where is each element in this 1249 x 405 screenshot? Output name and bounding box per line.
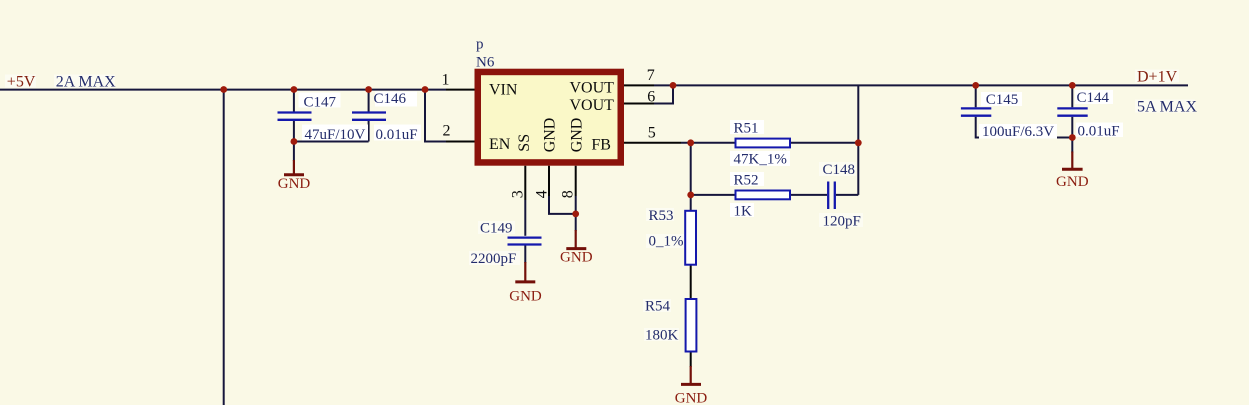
svg-text:5: 5 <box>648 124 656 141</box>
svg-text:GND: GND <box>542 118 559 153</box>
svg-text:GND: GND <box>1056 174 1089 190</box>
svg-text:2200pF: 2200pF <box>471 251 517 267</box>
svg-text:FB: FB <box>591 136 611 153</box>
svg-text:7: 7 <box>647 67 655 84</box>
svg-text:R53: R53 <box>649 208 674 224</box>
svg-text:1: 1 <box>442 72 450 89</box>
svg-text:C148: C148 <box>823 162 856 178</box>
svg-text:2A MAX: 2A MAX <box>56 74 116 91</box>
svg-text:2: 2 <box>443 123 451 140</box>
svg-text:47K_1%: 47K_1% <box>734 152 787 168</box>
svg-text:R52: R52 <box>734 173 759 189</box>
svg-text:180K: 180K <box>645 328 679 344</box>
svg-text:VOUT: VOUT <box>570 97 615 114</box>
svg-text:0_1%: 0_1% <box>649 233 684 249</box>
svg-text:GND: GND <box>675 391 708 405</box>
svg-text:C147: C147 <box>304 95 337 111</box>
svg-text:R51: R51 <box>734 121 759 137</box>
svg-text:SS: SS <box>516 134 533 152</box>
svg-text:VIN: VIN <box>489 82 518 99</box>
svg-text:C149: C149 <box>480 220 513 236</box>
svg-text:VOUT: VOUT <box>570 79 615 96</box>
svg-text:C144: C144 <box>1077 90 1110 106</box>
svg-text:0.01uF: 0.01uF <box>1078 124 1120 140</box>
svg-text:100uF/6.3V: 100uF/6.3V <box>982 124 1054 140</box>
svg-text:C145: C145 <box>986 92 1019 108</box>
svg-text:R54: R54 <box>645 299 671 315</box>
svg-text:8: 8 <box>560 190 577 198</box>
svg-text:0.01uF: 0.01uF <box>376 127 418 143</box>
svg-text:+5V: +5V <box>7 74 36 91</box>
svg-text:C146: C146 <box>374 91 407 107</box>
svg-text:EN: EN <box>489 136 511 153</box>
svg-text:6: 6 <box>647 89 655 106</box>
svg-text:p: p <box>476 37 484 53</box>
svg-text:3: 3 <box>510 190 527 198</box>
svg-text:1K: 1K <box>734 204 753 220</box>
svg-text:GND: GND <box>509 289 542 305</box>
svg-text:5A MAX: 5A MAX <box>1137 99 1197 116</box>
svg-text:N6: N6 <box>476 54 495 70</box>
svg-text:120pF: 120pF <box>823 214 861 230</box>
svg-text:4: 4 <box>533 190 550 198</box>
svg-text:GND: GND <box>278 176 311 192</box>
svg-text:GND: GND <box>569 118 586 153</box>
svg-text:GND: GND <box>560 250 593 266</box>
svg-text:47uF/10V: 47uF/10V <box>305 127 366 143</box>
svg-text:D+1V: D+1V <box>1137 69 1178 86</box>
